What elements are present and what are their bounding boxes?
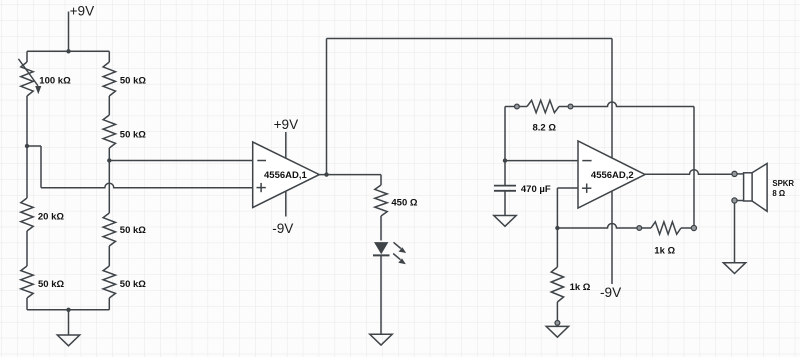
svg-text:SPKR: SPKR — [772, 179, 794, 188]
svg-text:1k Ω: 1k Ω — [570, 282, 591, 293]
wire to non-inverting input U2 — [557, 187, 578, 189]
svg-text:8 Ω: 8 Ω — [772, 189, 785, 198]
wire — [504, 107, 506, 161]
resistor 20 k&#937; — [21, 198, 65, 231]
node terminal — [515, 104, 520, 109]
node tap to inverting input — [107, 158, 111, 162]
wire V+ pin U1 — [285, 132, 287, 158]
wire — [26, 231, 28, 266]
ground — [723, 263, 745, 274]
resistor 50 k&#937; bottom-right first — [103, 213, 146, 246]
speaker SPKR 8 ohm — [732, 164, 795, 212]
capacitor 470 &#181;F — [494, 184, 551, 195]
wire — [504, 161, 506, 185]
node on +9V rail — [66, 49, 70, 53]
svg-text:450 Ω: 450 Ω — [391, 197, 417, 208]
node — [555, 226, 559, 230]
wire — [27, 145, 41, 147]
resistor 50 k&#937; bottom-left — [21, 266, 65, 298]
ground — [57, 335, 79, 346]
wire to inverting input U2 — [505, 160, 578, 162]
wire — [40, 146, 42, 188]
wire — [68, 12, 70, 52]
node terminal — [555, 321, 560, 326]
resistor 50 k&#937; top-right second — [103, 115, 146, 148]
wire top rail — [327, 38, 613, 40]
op-amp U1 4556AD,1 — [253, 142, 320, 208]
wire — [108, 298, 110, 310]
wire V+ pin U2 — [611, 39, 613, 158]
node terminal — [568, 104, 573, 109]
node U1 output junction — [324, 172, 328, 176]
op-amp U2 4556AD,2 — [578, 141, 645, 208]
wire with hop — [573, 102, 694, 107]
svg-text:-9V: -9V — [272, 221, 293, 236]
wire with hop — [557, 224, 637, 229]
wire — [26, 298, 28, 310]
wire — [326, 39, 328, 175]
wire — [68, 310, 70, 335]
wire — [26, 51, 28, 62]
net +9V — [70, 3, 95, 18]
svg-text:50 kΩ: 50 kΩ — [120, 225, 146, 236]
node terminal — [691, 225, 696, 230]
LED D1 — [373, 242, 406, 264]
resistor 1k &#937; to ground — [551, 228, 591, 321]
node above ground — [66, 308, 70, 312]
wire with hop to non-inverting input — [41, 183, 253, 188]
wire U2 output with hop — [645, 170, 732, 175]
wire to inverting input — [109, 160, 252, 162]
resistor 50 k&#937; bottom-right second — [103, 266, 146, 298]
wire — [504, 191, 506, 216]
wire — [380, 216, 382, 241]
wire — [108, 246, 110, 266]
svg-text:100 kΩ: 100 kΩ — [39, 76, 71, 87]
net -9V at U1 — [272, 221, 293, 236]
wire — [380, 175, 382, 185]
wire — [556, 188, 558, 228]
svg-text:-9V: -9V — [600, 285, 621, 300]
svg-text:20 kΩ: 20 kΩ — [38, 212, 64, 223]
svg-text:+9V: +9V — [70, 3, 95, 18]
svg-text:8.2 Ω: 8.2 Ω — [533, 123, 557, 134]
resistor 50 k&#937; top-right first — [103, 62, 146, 96]
wire — [693, 107, 695, 227]
wire — [27, 50, 109, 52]
svg-text:4556AD,1: 4556AD,1 — [264, 170, 307, 181]
svg-text:50 kΩ: 50 kΩ — [120, 279, 146, 290]
resistor 8.2 &#937; — [519, 100, 568, 133]
ground — [370, 334, 392, 345]
wire — [108, 51, 110, 62]
node tap to non-inverting input — [25, 144, 29, 148]
svg-text:50 kΩ: 50 kΩ — [120, 76, 146, 87]
svg-text:470 µF: 470 µF — [521, 184, 551, 195]
wire — [505, 106, 515, 108]
resistor 450 &#937; — [375, 185, 418, 216]
node terminal — [637, 226, 642, 231]
svg-text:50 kΩ: 50 kΩ — [38, 279, 64, 290]
node inverting input junction — [503, 158, 507, 162]
svg-text:4556AD,2: 4556AD,2 — [591, 170, 634, 181]
net +9V at U1 — [274, 117, 299, 132]
wire U1 output — [319, 174, 381, 176]
potentiometer 100 k&#937; — [18, 59, 71, 96]
wire V- pin U2 — [611, 191, 613, 284]
ground — [494, 216, 516, 227]
resistor 1k &#937; feedback — [642, 222, 692, 257]
wire — [108, 148, 110, 213]
ground — [546, 326, 568, 337]
wire — [27, 309, 109, 311]
wire V- pin U1 — [285, 191, 287, 216]
svg-text:50 kΩ: 50 kΩ — [120, 129, 146, 140]
svg-text:+9V: +9V — [274, 117, 299, 132]
svg-text:1k Ω: 1k Ω — [654, 245, 675, 256]
wire — [108, 96, 110, 115]
wire — [26, 96, 28, 198]
wire — [380, 256, 382, 335]
wire — [734, 203, 736, 263]
net -9V at U2 — [600, 285, 621, 300]
